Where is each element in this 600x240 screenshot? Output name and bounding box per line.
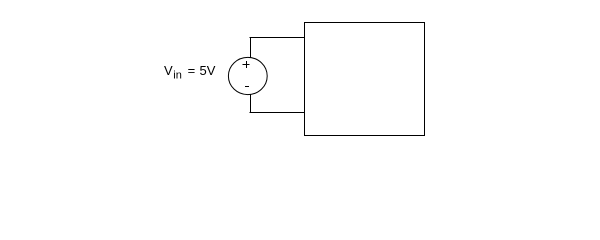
svg-text:V: V [164,63,173,78]
plus sign [243,61,250,68]
label Vin = 5V [164,63,216,82]
wire bottom vertical [250,94,252,113]
svg-text:=: = [188,63,196,78]
wire bottom horizontal [250,112,305,114]
minus sign [245,86,249,88]
svg-text:in: in [173,70,182,82]
wire top vertical [250,37,252,58]
wire top horizontal [250,37,305,39]
block U1 (empty box) [305,23,425,136]
svg-text:5V: 5V [200,63,216,78]
voltage source V1 (circle) [228,57,267,94]
